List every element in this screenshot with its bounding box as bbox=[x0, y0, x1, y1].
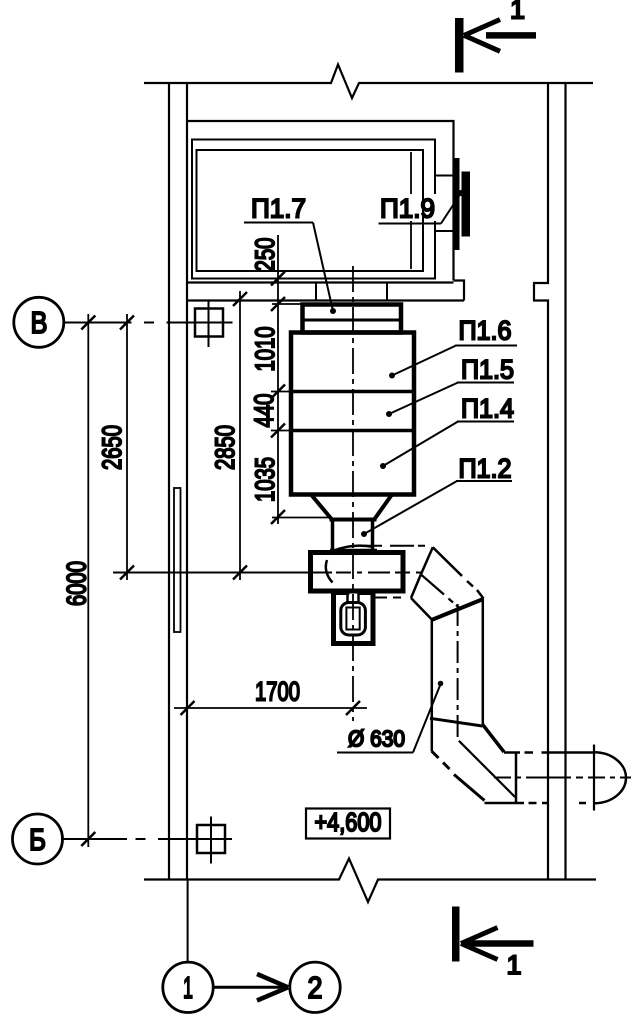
extension line at divider 391.5 bbox=[271, 391, 291, 393]
grid axis 2 circle bbox=[290, 962, 340, 1012]
duct end run axis dash-dot bbox=[494, 777, 631, 779]
right wall outer line bbox=[564, 83, 566, 880]
П1.4 leader line bbox=[383, 422, 458, 467]
dimension 1010 text bbox=[250, 327, 280, 372]
П1.9 leader line bbox=[441, 193, 461, 224]
floor slab divider B bbox=[386, 283, 388, 301]
tick at П1.7 top 304 bbox=[271, 297, 285, 311]
dimension 2850 tick bottom bbox=[233, 566, 247, 580]
svg-text:П1.9: П1.9 bbox=[380, 194, 435, 224]
section marker 1 (top): cutting-plane bar bbox=[455, 18, 464, 73]
elevation mark +4,600 box bbox=[306, 809, 390, 839]
extension line at divider 430.5 bbox=[271, 430, 291, 432]
extension line at П1.7 top bbox=[272, 303, 303, 305]
top break line with zigzag bbox=[144, 65, 593, 99]
dimension line 6000 vertical bbox=[87, 314, 89, 847]
П1.6 label text bbox=[459, 316, 512, 346]
П1.2 leader line bbox=[364, 481, 457, 534]
motor barrel inner rectangle bbox=[346, 608, 359, 630]
svg-text:1010: 1010 bbox=[250, 327, 280, 372]
upper chamber middle rectangle bbox=[192, 140, 435, 279]
duct elbow1 thick seam D bbox=[432, 599, 484, 620]
dimension line 2650 vertical bbox=[126, 314, 128, 580]
section marker 1 (top): arrow shaft bbox=[486, 32, 536, 39]
svg-text:1: 1 bbox=[183, 970, 193, 1005]
left wall outer line bbox=[168, 83, 170, 880]
motor barrel rounded body bbox=[341, 603, 366, 636]
svg-text:П1.5: П1.5 bbox=[461, 355, 514, 385]
upper chamber floor slab bottom line bbox=[187, 299, 464, 301]
dimension 6000 text bbox=[62, 561, 92, 606]
duct end cap semicircle bbox=[594, 752, 626, 803]
dimension 6000 tick bottom bbox=[81, 832, 95, 846]
duct vertical run left edge bbox=[431, 620, 434, 752]
bottom break line with zigzag bbox=[144, 859, 596, 903]
dimension 2650 text bbox=[97, 425, 127, 470]
duct elbow1 inner diagonal bbox=[411, 598, 432, 620]
dimension 1700 tick right bbox=[346, 701, 360, 715]
П1.4 leader dot bbox=[380, 463, 386, 469]
П1.6 label underline bbox=[455, 345, 517, 347]
duct elbow2 middle seam C2 bbox=[459, 741, 515, 797]
П1.5 leader line bbox=[389, 383, 458, 415]
Ø630 label text bbox=[348, 726, 405, 752]
motor support box bbox=[334, 593, 374, 644]
grid axis Б circle bbox=[13, 814, 63, 864]
section marker 1 (bottom): open arrowhead bbox=[461, 928, 498, 960]
П1.9 leader dot bbox=[458, 190, 464, 196]
section marker 1 (bottom): arrow shaft bbox=[466, 940, 534, 947]
dimension 2650 tick bottom bbox=[120, 566, 134, 580]
column symbol at axis B square bbox=[195, 309, 223, 337]
column symbol at axis B vertical cross line bbox=[208, 300, 210, 347]
grid axis Б line bbox=[61, 838, 232, 840]
fan inlet flange bbox=[330, 549, 377, 553]
dimension 1700 text bbox=[255, 677, 300, 707]
П1.7 connector middle line bbox=[303, 319, 402, 322]
grid axis 1 vertical line below wall bbox=[187, 880, 189, 963]
duct elbow2 inner diagonal bbox=[483, 724, 505, 752]
svg-text:440: 440 bbox=[249, 394, 279, 428]
duct end run top line bbox=[504, 751, 594, 754]
duct vertical run axis dash-dot bbox=[457, 604, 459, 741]
П1.6 leader line bbox=[392, 346, 456, 376]
П1.2 label underline bbox=[456, 480, 512, 482]
П1.2 label text bbox=[459, 454, 512, 484]
grid axis 2 digit bbox=[308, 970, 323, 1005]
svg-text:П1.6: П1.6 bbox=[459, 316, 512, 346]
dimension 440 text bbox=[249, 394, 279, 428]
svg-text:1: 1 bbox=[510, 0, 525, 25]
duct vertical run right edge bbox=[482, 599, 485, 725]
duct elbow1 middle seam C bbox=[421, 574, 459, 607]
dimension line 2850 vertical bbox=[239, 291, 241, 580]
funnel right side bbox=[375, 495, 393, 520]
svg-text:2650: 2650 bbox=[97, 425, 127, 470]
svg-text:+4,600: +4,600 bbox=[315, 807, 382, 837]
dimension line 1700 horizontal bbox=[174, 707, 367, 709]
П1.5 label underline bbox=[457, 382, 514, 384]
П1.4 label underline bbox=[457, 421, 514, 423]
unit section divider П1.5/П1.4 bbox=[291, 429, 414, 433]
Ø630 leader dot bbox=[438, 681, 444, 687]
svg-text:2: 2 bbox=[308, 970, 323, 1005]
П1.9 label underline bbox=[379, 223, 442, 225]
svg-text:1: 1 bbox=[506, 950, 521, 980]
duct elbow2 seam S1 bbox=[430, 718, 482, 726]
tick at funnel bottom 517 bbox=[271, 510, 285, 524]
П1.5 label text bbox=[461, 355, 514, 385]
motor shaft right line bbox=[357, 591, 360, 603]
funnel left side bbox=[311, 495, 332, 520]
duct end run bottom line bbox=[485, 802, 587, 805]
elevation mark +4,600 text bbox=[315, 807, 382, 837]
upper chamber inner lining line bbox=[410, 152, 412, 269]
axis 1 to axis 2 connector line bbox=[213, 986, 286, 989]
svg-text:Ø 630: Ø 630 bbox=[348, 726, 405, 752]
grid axis B letter bbox=[31, 305, 48, 340]
П1.7 label underline bbox=[244, 222, 313, 224]
motor shaft left line bbox=[346, 591, 349, 603]
section marker 1 (top): open arrowhead bbox=[464, 20, 500, 52]
connector neck left bbox=[331, 520, 335, 552]
П1.6 leader dot bbox=[389, 373, 395, 379]
svg-text:П1.2: П1.2 bbox=[459, 454, 512, 484]
section marker 1 (bottom): cutting-plane bar bbox=[452, 907, 460, 962]
dimension 1035 text bbox=[250, 457, 280, 502]
П1.4 label text bbox=[461, 394, 514, 424]
grid axis B line bbox=[63, 322, 233, 324]
grid axis B circle bbox=[14, 297, 64, 347]
dimension 1700 tick left bbox=[181, 701, 195, 715]
fan horizontal axis line dash-dot part bbox=[336, 572, 421, 574]
grid axis 1 digit bbox=[183, 970, 193, 1005]
floor slab divider A bbox=[315, 283, 317, 301]
left wall inner line / grid axis 1 line bbox=[186, 83, 188, 880]
grid axis Б letter bbox=[29, 822, 46, 857]
svg-text:6000: 6000 bbox=[62, 561, 92, 606]
svg-text:П1.7: П1.7 bbox=[251, 194, 306, 224]
dimension line 250/1010/440/1035 vertical bbox=[277, 235, 279, 524]
equipment vertical centerline dash-dot bbox=[352, 266, 354, 721]
upper chamber outer rectangle bbox=[187, 121, 454, 283]
funnel bottom flange bbox=[330, 518, 377, 522]
П1.7 leader dot bbox=[330, 308, 336, 314]
П1.7 flexible connector box bbox=[303, 305, 402, 333]
П1.9 label text bbox=[380, 194, 435, 224]
Ø630 leader line bbox=[413, 684, 441, 753]
tick at divider 430.5 bbox=[271, 424, 285, 438]
fan horizontal axis line solid part bbox=[113, 572, 332, 574]
П1.9 connection line lower bbox=[435, 230, 455, 232]
fan П1.2 housing bbox=[311, 553, 404, 592]
air handling unit body П1.6/П1.5/П1.4 bbox=[291, 333, 414, 495]
fan inlet arc over housing bbox=[333, 546, 374, 551]
П1.9 wall opening frame bar bbox=[455, 158, 460, 250]
upper chamber floor step right bbox=[454, 281, 465, 301]
dimension 2650 tick top bbox=[120, 316, 134, 330]
unit section divider П1.6/П1.5 bbox=[291, 390, 414, 394]
П1.7 label text bbox=[251, 194, 306, 224]
svg-text:П1.4: П1.4 bbox=[461, 394, 514, 424]
upper chamber inner rectangle bbox=[197, 150, 424, 271]
П1.5 leader dot bbox=[386, 411, 392, 417]
left wall niche strip bbox=[174, 488, 181, 632]
column symbol at axis Б square bbox=[197, 825, 225, 853]
svg-text:Б: Б bbox=[29, 822, 46, 857]
svg-text:2850: 2850 bbox=[210, 425, 240, 470]
duct end cap chord line bbox=[593, 745, 595, 811]
svg-text:В: В bbox=[31, 305, 48, 340]
connector neck right bbox=[371, 520, 375, 552]
axis 1 to axis 2 arrowhead bbox=[257, 974, 288, 1001]
dimension 6000 tick top bbox=[81, 316, 95, 330]
П1.9 damper solid bar bbox=[462, 172, 471, 237]
tick at divider 391.5 bbox=[271, 385, 285, 399]
column symbol at axis Б vertical cross line bbox=[210, 817, 212, 864]
П1.7 leader line bbox=[313, 223, 333, 312]
dimension 2850 text bbox=[210, 425, 240, 470]
svg-text:1700: 1700 bbox=[255, 677, 300, 707]
motor side axis dash bbox=[374, 597, 407, 599]
right wall inner line with pilaster notch bbox=[534, 83, 548, 880]
section marker 1 (bottom): label 1 bbox=[506, 950, 521, 980]
fan scroll arc inside housing bbox=[326, 560, 333, 583]
duct elbow1 outer edge with dash bbox=[433, 547, 484, 598]
extension line at funnel bottom bbox=[272, 517, 331, 519]
grid axis 1 circle bbox=[163, 962, 213, 1012]
duct elbow1 left edge bbox=[411, 574, 421, 598]
svg-text:250: 250 bbox=[250, 238, 280, 272]
section marker 1 (top): label 1 bbox=[510, 0, 525, 25]
Ø630 label underline bbox=[337, 752, 413, 754]
dimension 250 text bbox=[250, 238, 280, 272]
tick at chamber floor 279 bbox=[271, 272, 285, 286]
duct elbow2 outer edge with dash bbox=[432, 751, 485, 801]
П1.2 leader dot bbox=[361, 531, 367, 537]
dimension 2850 tick top bbox=[233, 292, 247, 306]
duct elbow1 seam B bbox=[421, 547, 433, 574]
П1.9 connection line upper bbox=[435, 175, 455, 177]
svg-text:1035: 1035 bbox=[250, 457, 280, 502]
duct outlet axis dash-dot from fan bbox=[363, 545, 425, 547]
duct end run start seam bbox=[515, 752, 518, 804]
